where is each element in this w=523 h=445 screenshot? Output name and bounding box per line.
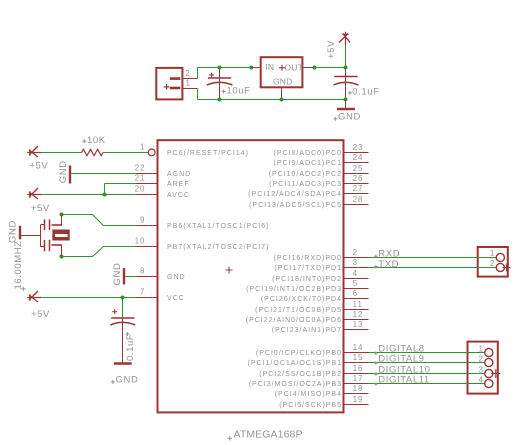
- svg-text:GND: GND: [7, 220, 18, 243]
- svg-text:(PCI12/ADC4/SDA)PC4: (PCI12/ADC4/SDA)PC4: [248, 191, 342, 198]
- svg-text:16.00MHZ: 16.00MHZ: [13, 240, 24, 289]
- svg-text:(PCI21/T1/OC0B)PD5: (PCI21/T1/OC0B)PD5: [255, 307, 342, 314]
- svg-text:2: 2: [185, 69, 190, 78]
- svg-text:(PCI23/AIN1)PD7: (PCI23/AIN1)PD7: [272, 327, 342, 334]
- svg-text:IN: IN: [265, 62, 274, 72]
- svg-text:10: 10: [135, 237, 146, 246]
- svg-text:AREF: AREF: [167, 181, 190, 188]
- svg-text:ATMEGA168P: ATMEGA168P: [234, 428, 303, 440]
- svg-text:26: 26: [353, 174, 364, 183]
- svg-text:1: 1: [479, 345, 484, 354]
- svg-text:0.1uF: 0.1uF: [125, 334, 136, 361]
- svg-text:VCC: VCC: [167, 295, 185, 302]
- svg-text:AGND: AGND: [167, 171, 191, 178]
- svg-text:(PCI8/ADC0)PC0: (PCI8/ADC0)PC0: [274, 150, 342, 157]
- svg-text:27: 27: [353, 184, 364, 193]
- svg-text:1: 1: [186, 78, 191, 87]
- svg-text:21: 21: [135, 174, 146, 183]
- svg-text:(PCI20/XCK/T0)PD4: (PCI20/XCK/T0)PD4: [261, 296, 342, 303]
- svg-text:2: 2: [353, 248, 358, 257]
- svg-text:10K: 10K: [87, 135, 106, 146]
- svg-text:24: 24: [353, 153, 364, 162]
- svg-text:12: 12: [353, 310, 364, 319]
- svg-text:(PCI10/ADC2)PC2: (PCI10/ADC2)PC2: [269, 171, 342, 178]
- svg-text:PC6(/RESET/PCI14): PC6(/RESET/PCI14): [167, 150, 249, 157]
- svg-text:TXD: TXD: [378, 259, 399, 270]
- svg-text:8: 8: [140, 267, 145, 276]
- svg-text:14: 14: [353, 343, 364, 352]
- svg-text:22: 22: [135, 164, 146, 173]
- svg-text:4: 4: [353, 269, 358, 278]
- svg-text:10uF: 10uF: [227, 85, 251, 96]
- svg-text:PB6(XTAL1/TOSC1/PCI6): PB6(XTAL1/TOSC1/PCI6): [167, 223, 269, 230]
- svg-text:+5V: +5V: [29, 161, 48, 172]
- svg-text:(PCI1/OC1A/OC1S)PB1: (PCI1/OC1A/OC1S)PB1: [248, 360, 342, 367]
- svg-text:(PCI17/TXD)PD1: (PCI17/TXD)PD1: [274, 265, 342, 272]
- svg-text:0.1uF: 0.1uF: [352, 86, 379, 97]
- svg-text:+5V: +5V: [31, 203, 50, 214]
- svg-text:AVCC: AVCC: [167, 192, 190, 199]
- svg-text:RXD: RXD: [378, 248, 400, 259]
- svg-text:GND: GND: [116, 375, 139, 386]
- svg-text:OUT: OUT: [285, 62, 304, 72]
- svg-text:GND: GND: [167, 274, 186, 281]
- svg-text:20: 20: [135, 185, 146, 194]
- svg-text:DIGITAL9: DIGITAL9: [378, 354, 424, 365]
- svg-text:18: 18: [353, 384, 364, 393]
- svg-text:23: 23: [353, 143, 364, 152]
- svg-text:GND: GND: [112, 263, 123, 286]
- svg-text:DIGITAL11: DIGITAL11: [378, 375, 430, 386]
- svg-text:(PCI0/ICP/CLKO)PB0: (PCI0/ICP/CLKO)PB0: [256, 350, 342, 357]
- svg-text:28: 28: [353, 195, 364, 204]
- svg-text:GND: GND: [338, 112, 361, 123]
- svg-text:(PCI11/ADC3)PC3: (PCI11/ADC3)PC3: [269, 181, 342, 188]
- svg-text:(PCI2/SS/OC1B)PB2: (PCI2/SS/OC1B)PB2: [259, 371, 342, 378]
- svg-text:2: 2: [479, 355, 484, 364]
- svg-text:11: 11: [353, 300, 363, 309]
- svg-text:(PCI19/INT1/OC2B)PD3: (PCI19/INT1/OC2B)PD3: [246, 286, 342, 293]
- svg-text:(PCI4/MISO)PB4: (PCI4/MISO)PB4: [275, 391, 342, 398]
- svg-text:2: 2: [490, 259, 495, 268]
- svg-text:(PCI5/SCK)PB5: (PCI5/SCK)PB5: [279, 402, 342, 409]
- svg-text:(PCI9/ADC1)PC1: (PCI9/ADC1)PC1: [274, 160, 342, 167]
- svg-text:17: 17: [353, 374, 364, 383]
- svg-text:25: 25: [353, 164, 364, 173]
- svg-text:5: 5: [353, 279, 358, 288]
- svg-text:1: 1: [490, 249, 495, 258]
- svg-text:4: 4: [479, 376, 484, 385]
- svg-text:(PCI13/ADC5/SCL)PC5: (PCI13/ADC5/SCL)PC5: [249, 202, 342, 209]
- svg-text:(PCI18/INT0)PD2: (PCI18/INT0)PD2: [272, 276, 342, 283]
- svg-text:GND: GND: [273, 76, 293, 86]
- svg-text:PB7(XTAL2/TOSC2/PCI7): PB7(XTAL2/TOSC2/PCI7): [167, 244, 269, 251]
- svg-text:13: 13: [353, 320, 364, 329]
- svg-text:1: 1: [140, 143, 145, 152]
- svg-text:+5V: +5V: [326, 40, 337, 59]
- svg-text:19: 19: [353, 395, 364, 404]
- svg-text:16: 16: [353, 364, 364, 373]
- svg-text:7: 7: [140, 288, 145, 297]
- svg-text:9: 9: [140, 216, 145, 225]
- svg-text:3: 3: [353, 258, 358, 267]
- svg-text:GND: GND: [58, 160, 69, 183]
- svg-text:3: 3: [479, 366, 484, 375]
- svg-text:(PCI3/MOSI/OC2A)PB3: (PCI3/MOSI/OC2A)PB3: [249, 381, 342, 388]
- svg-text:(PCI22/AIN0/OC0A)PD6: (PCI22/AIN0/OC0A)PD6: [246, 317, 342, 324]
- svg-text:(PCI16/RXD)PD0: (PCI16/RXD)PD0: [274, 255, 342, 262]
- svg-text:+5V: +5V: [31, 309, 50, 320]
- svg-text:6: 6: [353, 289, 358, 298]
- svg-text:15: 15: [353, 353, 364, 362]
